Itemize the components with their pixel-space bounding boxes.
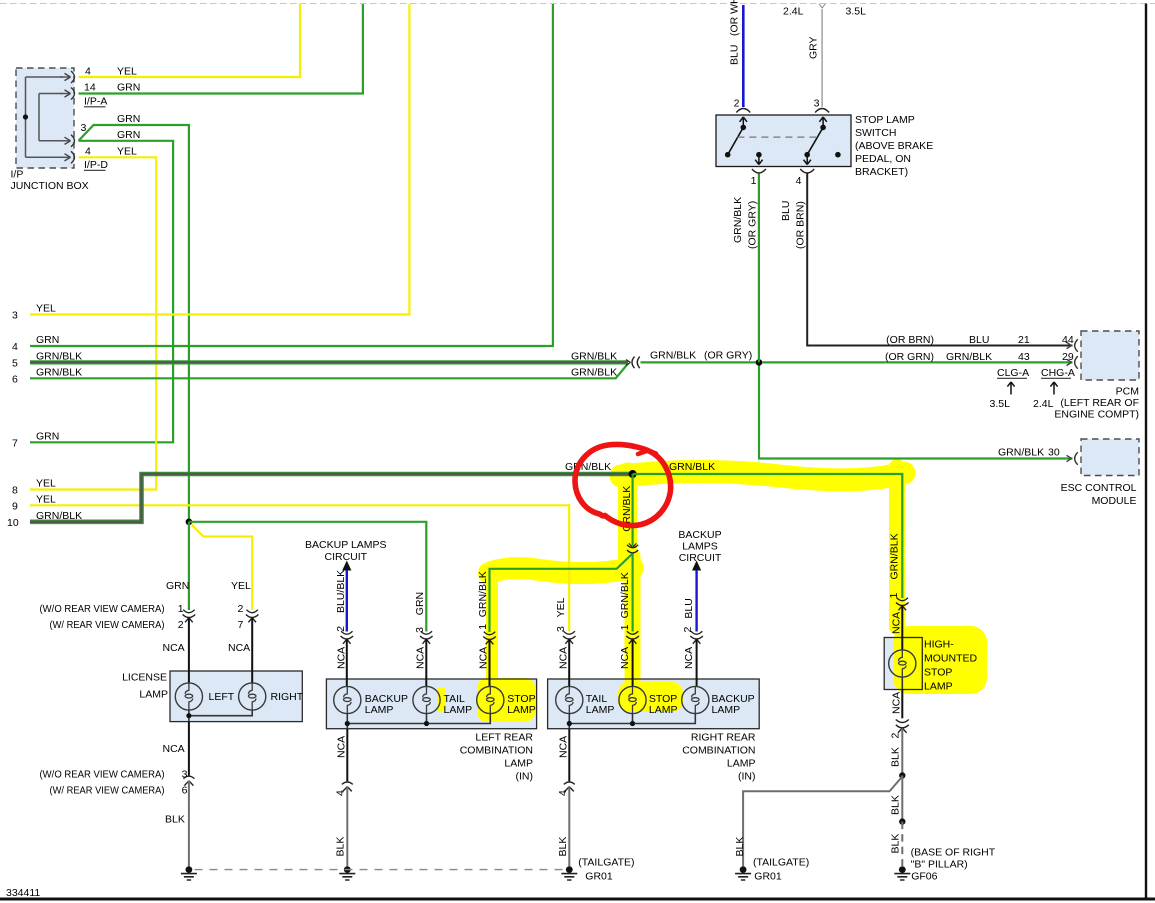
svg-text:(OR BRN): (OR BRN)	[795, 201, 807, 249]
license lamp right bulb	[239, 683, 266, 710]
I/P pin arrow 3 I/P-D	[60, 140, 70, 142]
text right rear name	[682, 732, 756, 783]
license ground	[181, 866, 197, 880]
license lamp pin 1 connector	[183, 610, 196, 623]
svg-text:4: 4	[12, 341, 18, 353]
junction dot E	[899, 818, 905, 824]
svg-text:(W/O REAR VIEW CAMERA): (W/O REAR VIEW CAMERA)	[40, 769, 165, 781]
text stop lamp switch name	[855, 114, 933, 178]
I/P pin arrow 4 I/P-A	[60, 76, 70, 78]
svg-text:NCA: NCA	[477, 647, 489, 669]
inline connector arrow row5/6	[626, 360, 631, 366]
svg-text:LAMP: LAMP	[727, 758, 756, 770]
svg-text:LAMP: LAMP	[924, 681, 953, 693]
wire GRN/BLK row 5	[30, 360, 628, 364]
svg-text:CHG-A: CHG-A	[1041, 367, 1075, 379]
svg-text:LAMP: LAMP	[507, 704, 536, 716]
high-mounted stop pin 1 connector	[896, 598, 909, 611]
svg-text:RIGHT: RIGHT	[271, 691, 304, 703]
left rear stop pin 1 connector	[483, 632, 496, 645]
text tailgate ground high-mounted	[753, 857, 809, 883]
svg-text:LAMPS: LAMPS	[682, 541, 718, 553]
svg-text:334411: 334411	[6, 887, 40, 899]
svg-text:2: 2	[238, 603, 244, 615]
svg-text:3: 3	[814, 98, 820, 110]
svg-text:3: 3	[414, 627, 426, 633]
svg-text:BRACKET): BRACKET)	[855, 166, 908, 178]
right rear backup bulb	[682, 686, 709, 713]
right rear pin leads black	[569, 640, 696, 687]
svg-text:4: 4	[85, 66, 91, 78]
right rear tail pin 3 connector	[563, 631, 576, 644]
svg-text:SWITCH: SWITCH	[855, 127, 896, 139]
inline connector arcs row5/6	[632, 357, 640, 369]
svg-text:1: 1	[619, 624, 631, 630]
svg-text:GRN: GRN	[36, 334, 59, 346]
svg-text:I/P-D: I/P-D	[84, 159, 108, 171]
wire GRN junction A down to license left	[188, 522, 190, 610]
svg-text:BLU: BLU	[780, 201, 792, 221]
wire YEL from I/P-A pin 4 up to top	[79, 4, 301, 77]
high-mounted pin lead black	[901, 606, 903, 651]
svg-text:4: 4	[557, 790, 569, 796]
left rear backup lamps circuit arrow BLU/BLK	[342, 561, 351, 571]
svg-text:BLK: BLK	[890, 747, 902, 767]
svg-text:YEL: YEL	[36, 303, 56, 315]
tailgate ground for high-mounted branch	[735, 866, 751, 880]
svg-text:NCA: NCA	[163, 642, 185, 654]
wire GRN row 4 up to top	[30, 4, 553, 346]
wire GRN/BLK junction C to high-mounted stop lamp	[633, 474, 903, 598]
license lamp internal wiring	[189, 710, 252, 722]
red hand-drawn circle	[575, 444, 671, 525]
box fill right rear combination lamp	[548, 679, 760, 729]
svg-text:NCA: NCA	[558, 647, 570, 669]
svg-text:GRN: GRN	[117, 113, 140, 125]
svg-text:GR01: GR01	[754, 871, 782, 883]
svg-text:(IN): (IN)	[516, 771, 534, 783]
text tailgate ground right rear	[578, 857, 634, 883]
PCM pin 44 connector	[1067, 339, 1078, 352]
stop lamp switch pin 1 dot and arrow	[756, 152, 762, 158]
svg-text:GF06: GF06	[911, 871, 937, 883]
svg-text:COMBINATION: COMBINATION	[682, 745, 755, 757]
license lamp output black wire	[188, 722, 190, 776]
svg-text:7: 7	[238, 619, 244, 631]
text high-mounted name	[924, 639, 977, 693]
text junction C labels	[565, 461, 715, 473]
box fill I/P junction box	[16, 68, 74, 168]
svg-text:(OR WH: (OR WH	[729, 0, 741, 36]
svg-text:YEL: YEL	[231, 580, 251, 592]
left rear BLK wire to ground	[346, 787, 348, 866]
BLK dashed wire to GF06 ground	[901, 822, 903, 866]
box border I/P junction box	[16, 68, 74, 168]
left rear tail pin 3 connector	[420, 631, 433, 644]
svg-text:NCA: NCA	[891, 692, 903, 714]
svg-text:MODULE: MODULE	[1092, 495, 1137, 507]
svg-text:GRN/BLK: GRN/BLK	[571, 367, 617, 379]
left rear internal wiring	[347, 714, 490, 729]
right rear stop bulb	[619, 686, 646, 713]
svg-text:YEL: YEL	[117, 146, 137, 158]
svg-text:LAMP: LAMP	[586, 704, 615, 716]
wire BLU to stop lamp switch pin 2	[742, 5, 745, 107]
wire GRN/BLK (OR GRY) switch pin1 down to junction B	[758, 174, 760, 363]
red circle pen tail	[638, 451, 656, 455]
highlighter blob over left rear stop lamp	[477, 678, 535, 722]
svg-text:1: 1	[751, 175, 757, 187]
wire GRN from I/P-D pin 3 diagonal to junction A	[79, 125, 189, 522]
svg-text:2: 2	[178, 619, 184, 631]
highlighter sliver at left rear tail lamp	[437, 688, 445, 711]
text ESC wire label	[998, 447, 1060, 459]
left rear backup pin 2 connector	[341, 631, 354, 644]
ground bus dashed line	[195, 869, 566, 871]
underline CHG-A	[1041, 377, 1071, 379]
svg-text:(OR BRN): (OR BRN)	[886, 334, 934, 346]
left rear inline connector 4	[342, 782, 353, 791]
svg-text:LAMP: LAMP	[444, 704, 473, 716]
svg-text:4: 4	[85, 146, 91, 158]
svg-text:LAMP: LAMP	[139, 689, 168, 701]
svg-text:GRY: GRY	[807, 36, 819, 59]
highlighter band down to right rear stop pin	[625, 556, 641, 688]
PCM pin 29 connector	[1067, 356, 1078, 369]
svg-text:NCA: NCA	[228, 642, 250, 654]
left rear pin leads black	[347, 640, 490, 687]
svg-text:43: 43	[1018, 351, 1030, 363]
svg-text:LAMP: LAMP	[504, 758, 533, 770]
license lamp pin2 lead black	[251, 618, 253, 683]
right rear BLK wire to ground	[568, 787, 570, 866]
text left rear name	[460, 732, 534, 783]
I/P junction box bus junction dot	[23, 114, 28, 119]
svg-text:I/P-A: I/P-A	[84, 96, 107, 108]
svg-text:PEDAL, ON: PEDAL, ON	[855, 153, 911, 165]
junction dot D	[899, 772, 905, 778]
box border PCM	[1081, 331, 1139, 380]
svg-text:3.5L: 3.5L	[990, 398, 1011, 410]
svg-text:LEFT REAR: LEFT REAR	[475, 732, 533, 744]
svg-text:ESC CONTROL: ESC CONTROL	[1061, 482, 1137, 494]
svg-text:6: 6	[182, 785, 188, 797]
stop lamp switch pin 2 arc	[736, 109, 750, 113]
svg-text:ENGINE COMPT): ENGINE COMPT)	[1054, 409, 1139, 421]
junction dot C	[629, 470, 637, 478]
right rear stop pin 1 connector	[626, 631, 639, 644]
svg-text:(W/ REAR VIEW CAMERA): (W/ REAR VIEW CAMERA)	[50, 785, 165, 797]
svg-text:7: 7	[12, 438, 18, 450]
text right rear bulbs	[586, 693, 755, 716]
stop lamp switch contact dot pin3	[820, 125, 826, 131]
svg-text:BLK: BLK	[734, 837, 746, 857]
stop lamp switch blade right lower dot	[804, 152, 810, 158]
svg-text:(ABOVE BRAKE: (ABOVE BRAKE	[855, 140, 933, 152]
right rear output black wire	[568, 729, 570, 782]
svg-text:GRN/BLK: GRN/BLK	[571, 351, 617, 363]
svg-text:YEL: YEL	[117, 66, 137, 78]
right rear backup pin 2 connector	[690, 631, 703, 644]
highlighter band vertical to high-mounted stop lamp	[889, 467, 905, 627]
box fill stop lamp switch	[716, 115, 851, 167]
wire YEL from I/P-D pin 4 to row 8	[30, 157, 156, 489]
license lamp pin 2 connector	[246, 610, 259, 623]
highlighter band down to left rear stop pin	[486, 570, 498, 682]
svg-text:2: 2	[890, 733, 902, 739]
top dashed border	[0, 3, 1155, 5]
stop lamp switch pin 1 arc	[752, 169, 766, 173]
right border	[1145, 4, 1147, 900]
text row5/6 right labels	[571, 350, 752, 379]
wire YEL branch from junction A to license right	[192, 525, 253, 611]
stop lamp switch pin 2 arrow inside	[740, 117, 747, 127]
CHG-A arrow	[1050, 382, 1057, 395]
left rear stop bulb	[477, 686, 504, 713]
highlighter blob over right rear stop lamp	[618, 682, 683, 712]
text engine size top	[783, 6, 866, 18]
svg-text:2.4L: 2.4L	[1033, 398, 1054, 410]
left rear internal junction dots	[345, 721, 350, 726]
svg-text:10: 10	[7, 517, 19, 529]
svg-text:2: 2	[335, 626, 347, 632]
svg-text:BACKUP LAMPS: BACKUP LAMPS	[305, 539, 387, 551]
high-mounted output black wire	[901, 690, 903, 719]
svg-text:GR01: GR01	[585, 871, 613, 883]
box fill high-mounted stop lamp	[884, 638, 922, 690]
junction dot A	[186, 519, 193, 526]
svg-text:BLK: BLK	[890, 834, 902, 854]
svg-text:CIRCUIT: CIRCUIT	[679, 552, 722, 564]
text backup lamps circuit right	[678, 529, 721, 564]
svg-text:GRN/BLK: GRN/BLK	[36, 367, 82, 379]
stop lamp switch blade right	[807, 127, 823, 154]
text left rear bulbs	[365, 693, 536, 716]
license BLK wire to ground	[188, 781, 190, 866]
I/P pin arrow 4 I/P-D	[60, 156, 70, 158]
svg-text:6: 6	[12, 374, 18, 386]
wire GRN/BLK junction B to PCM pin 29	[762, 361, 1073, 363]
right rear internal junction dots	[567, 721, 572, 726]
svg-text:GRN: GRN	[117, 129, 140, 141]
svg-text:2: 2	[682, 627, 694, 633]
svg-text:14: 14	[84, 82, 96, 94]
stop lamp switch contact dot pin2	[741, 125, 747, 131]
text license feeds	[40, 580, 304, 826]
svg-text:BLU: BLU	[683, 598, 695, 618]
left rear output black wire	[346, 729, 348, 782]
text stop lamp switch pins	[734, 98, 820, 188]
svg-text:NCA: NCA	[683, 647, 695, 669]
license lamp left bulb	[175, 683, 202, 710]
stop lamp switch spare contact dot	[835, 152, 841, 158]
svg-text:CLG-A: CLG-A	[997, 367, 1029, 379]
svg-text:(W/O REAR VIEW CAMERA): (W/O REAR VIEW CAMERA)	[40, 603, 165, 615]
box border stop lamp switch	[716, 115, 851, 167]
box border high-mounted stop lamp	[884, 638, 922, 690]
stop lamp switch blade left	[728, 127, 744, 154]
svg-text:GRN/BLK: GRN/BLK	[650, 350, 696, 362]
svg-text:BACKUP: BACKUP	[678, 529, 721, 541]
wire GRN/BLK junction C down to splice connector	[631, 474, 633, 546]
svg-text:NCA: NCA	[335, 736, 347, 758]
svg-text:BLK: BLK	[335, 837, 347, 857]
text I/P junction box labels	[11, 66, 141, 193]
wire BLU (OR BRN) switch pin4 to PCM pin 44	[807, 174, 1072, 346]
svg-text:GRN/BLK: GRN/BLK	[477, 571, 489, 617]
wire GRN/BLK row 6 diagonal into connector	[30, 363, 629, 378]
splice connector arrow	[629, 543, 637, 547]
left rear tail bulb	[413, 686, 440, 713]
svg-text:STOP LAMP: STOP LAMP	[855, 114, 915, 126]
wire GRN from I/P-A pin 14 up to top	[79, 4, 363, 94]
CLG-A arrow	[1007, 382, 1014, 395]
svg-text:3: 3	[555, 626, 567, 632]
svg-text:3: 3	[81, 122, 87, 134]
wire GRN/BLK junction B down and to ESC pin 30	[759, 366, 1073, 459]
svg-text:GRN: GRN	[166, 580, 189, 592]
box border right rear combination lamp	[548, 679, 760, 729]
wire GRN/BLK splice branch to left rear stop lamp	[490, 554, 633, 633]
right rear tail bulb	[556, 686, 583, 713]
highlighter band over GRN/BLK horizontal run to high-mounted stop lamp	[621, 472, 904, 480]
svg-text:GRN/BLK: GRN/BLK	[36, 510, 82, 522]
stop lamp switch pin 4 arrow	[804, 155, 811, 165]
svg-text:21: 21	[1018, 334, 1030, 346]
text backup lamps circuit left	[305, 539, 387, 563]
high-mounted bulb bottom lead	[901, 677, 903, 689]
svg-text:PCM: PCM	[1116, 386, 1139, 398]
svg-text:29: 29	[1062, 351, 1074, 363]
svg-text:BLU: BLU	[729, 45, 741, 65]
svg-text:3.5L: 3.5L	[846, 6, 867, 18]
svg-text:5: 5	[12, 358, 18, 370]
svg-text:(LEFT REAR OF: (LEFT REAR OF	[1060, 397, 1139, 409]
svg-text:NCA: NCA	[163, 743, 185, 755]
svg-text:RIGHT REAR: RIGHT REAR	[691, 732, 756, 744]
svg-text:GRN: GRN	[414, 592, 426, 615]
svg-text:NCA: NCA	[891, 612, 903, 634]
svg-text:4: 4	[335, 790, 347, 796]
left rear ground	[339, 866, 355, 880]
svg-text:GRN: GRN	[36, 431, 59, 443]
svg-text:BLU/BLK: BLU/BLK	[335, 570, 347, 613]
svg-text:YEL: YEL	[555, 597, 567, 617]
svg-text:STOP: STOP	[924, 667, 952, 679]
wire GRN junction A to left rear tail lamp	[189, 522, 426, 632]
svg-text:44: 44	[1062, 334, 1074, 346]
svg-text:NCA: NCA	[335, 647, 347, 669]
svg-text:GRN/BLK: GRN/BLK	[889, 533, 901, 579]
license lamp pin1 lead black	[188, 618, 190, 683]
splice connector arcs	[627, 545, 638, 553]
svg-text:1: 1	[178, 603, 184, 615]
box border ESC control module	[1081, 439, 1139, 476]
BLK wire between junctions	[901, 776, 903, 822]
high-mounted stop bulb	[889, 650, 916, 677]
high-mounted inline connector 2	[896, 720, 909, 733]
svg-text:(TAILGATE): (TAILGATE)	[753, 857, 809, 869]
svg-text:"B" PILLAR): "B" PILLAR)	[911, 859, 968, 871]
svg-text:BLK: BLK	[557, 837, 569, 857]
wire GRY to stop lamp switch pin 3 arrow	[819, 4, 825, 8]
svg-text:LAMP: LAMP	[712, 704, 741, 716]
stop lamp switch pin 3 arrow inside	[819, 117, 826, 127]
svg-text:NCA: NCA	[415, 647, 427, 669]
svg-text:GRN: GRN	[117, 82, 140, 94]
svg-text:3: 3	[182, 769, 188, 781]
svg-text:3: 3	[12, 310, 18, 322]
svg-text:YEL: YEL	[36, 494, 56, 506]
highlighter blob over high-mounted stop lamp text	[893, 626, 987, 694]
wire GRN/BLK row 10 thick to junction C	[30, 474, 629, 522]
svg-text:LICENSE: LICENSE	[122, 672, 167, 684]
svg-text:1: 1	[888, 593, 900, 599]
box fill PCM	[1081, 331, 1139, 380]
text GF06 ground	[911, 847, 996, 883]
stop lamp switch pin 4 arc	[800, 169, 814, 173]
license lamp internal junction dot	[186, 713, 191, 718]
underline I/P-D	[84, 169, 106, 171]
svg-text:BLU: BLU	[969, 334, 989, 346]
text ESC name	[1061, 482, 1137, 507]
wire GRN/BLK (OR GRY) from connector to junction B	[641, 361, 760, 363]
svg-text:LAMP: LAMP	[365, 704, 394, 716]
underline CLG-A	[997, 377, 1027, 379]
svg-text:GRN/BLK: GRN/BLK	[619, 572, 631, 618]
junction dot B	[756, 359, 763, 366]
right rear backup lamps circuit arrow BLU	[692, 561, 701, 571]
I/P junction box internal bus	[26, 77, 64, 157]
svg-text:(BASE OF RIGHT: (BASE OF RIGHT	[911, 847, 996, 859]
license inline connector 3/6	[183, 776, 194, 785]
svg-text:8: 8	[12, 485, 18, 497]
stop lamp switch blade left lower dot	[725, 152, 731, 158]
box border license lamp	[170, 671, 302, 722]
svg-text:BLK: BLK	[890, 795, 902, 815]
svg-text:JUNCTION BOX: JUNCTION BOX	[11, 180, 89, 192]
box border left rear combination lamp	[326, 679, 536, 729]
svg-text:GRN/BLK: GRN/BLK	[36, 351, 82, 363]
highlighter band vertical at junction x632	[618, 472, 637, 558]
svg-text:HIGH-: HIGH-	[924, 639, 954, 651]
I/P pin arrow 14 I/P-A	[60, 93, 70, 95]
underline I/P-A	[84, 106, 106, 108]
svg-text:GRN/BLK: GRN/BLK	[732, 197, 744, 243]
svg-text:GRN/BLK: GRN/BLK	[998, 447, 1044, 459]
text left row numbers	[7, 310, 19, 530]
svg-text:NCA: NCA	[558, 736, 570, 758]
svg-text:COMBINATION: COMBINATION	[460, 745, 533, 757]
svg-text:(OR GRY): (OR GRY)	[704, 350, 752, 362]
svg-text:GRN/BLK: GRN/BLK	[565, 461, 611, 473]
box fill license lamp	[170, 671, 302, 722]
svg-text:YEL: YEL	[36, 478, 56, 490]
svg-text:(OR GRN): (OR GRN)	[885, 351, 934, 363]
stop lamp switch pin 3 arc	[815, 109, 829, 113]
svg-text:(TAILGATE): (TAILGATE)	[578, 857, 634, 869]
svg-text:4: 4	[796, 175, 802, 187]
stop lamp switch dashed link	[737, 136, 816, 138]
GF06 ground	[894, 866, 910, 880]
svg-text:NCA: NCA	[619, 647, 631, 669]
svg-text:9: 9	[12, 501, 18, 513]
highlighter band branch to left rear stop lamp	[489, 568, 633, 573]
box fill left rear combination lamp	[326, 679, 536, 729]
wire YEL row 9 to right rear tail lamp	[30, 505, 569, 631]
text PCM name	[1054, 386, 1139, 421]
svg-text:(IN): (IN)	[738, 771, 756, 783]
